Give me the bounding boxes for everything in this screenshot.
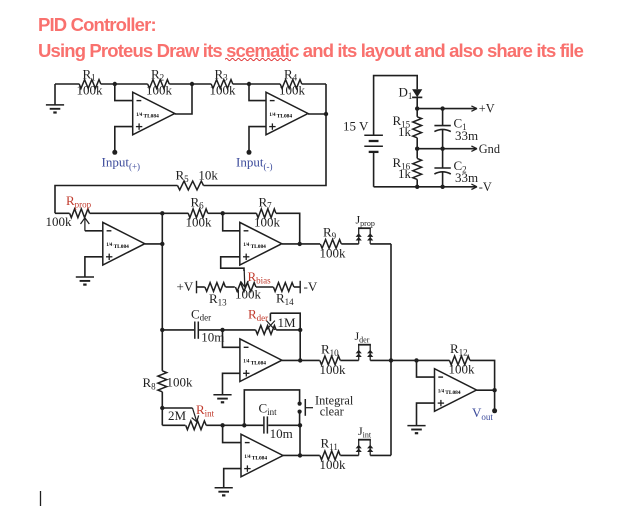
wire — [85, 257, 103, 277]
node Rprop-R6 — [160, 211, 164, 215]
wire — [340, 359, 358, 361]
svg-text:clear: clear — [320, 405, 344, 419]
jumper Jder — [355, 329, 374, 360]
wire — [85, 230, 103, 232]
svg-text:100k: 100k — [46, 214, 73, 229]
wire — [161, 408, 163, 425]
svg-text:100k: 100k — [279, 83, 306, 98]
op-amp U1B — [266, 92, 308, 135]
wire — [340, 454, 358, 456]
svg-text:100k: 100k — [320, 246, 347, 261]
svg-text:100k: 100k — [77, 83, 104, 98]
node -V rail — [415, 185, 419, 189]
wire — [341, 243, 358, 245]
wire — [223, 373, 240, 394]
wire — [417, 108, 476, 110]
resistor R11 — [320, 436, 347, 473]
svg-text:R9: R9 — [323, 225, 337, 241]
wire — [282, 243, 300, 245]
resistor R8 — [143, 330, 194, 408]
svg-text:2M: 2M — [168, 408, 187, 423]
spellcheck squiggle — [225, 57, 291, 62]
wire — [223, 213, 240, 231]
node Vout terminal — [492, 408, 497, 413]
svg-text:1M: 1M — [278, 315, 297, 330]
label Input(-) — [236, 155, 272, 172]
node A — [113, 82, 117, 86]
svg-text:R4: R4 — [284, 66, 298, 82]
svg-text:33m: 33m — [455, 170, 478, 185]
node Rder right — [298, 328, 302, 332]
wire — [300, 243, 320, 245]
wire — [226, 286, 235, 288]
wire — [299, 425, 301, 455]
ground (U2A +) — [213, 395, 231, 403]
wire — [55, 186, 178, 214]
wire — [308, 84, 326, 114]
wire — [374, 76, 418, 136]
wire — [417, 148, 476, 150]
wire — [494, 390, 496, 411]
svg-text:10m: 10m — [270, 426, 293, 441]
svg-text:1/4 TL084: 1/4 TL084 — [136, 113, 159, 120]
wire — [175, 84, 192, 114]
wire — [199, 329, 223, 331]
svg-text:Jint: Jint — [358, 424, 372, 439]
wire — [223, 330, 240, 347]
wire — [223, 329, 256, 331]
node C1 bottom — [440, 147, 444, 151]
wire — [223, 424, 264, 426]
op-amp U1D — [240, 222, 282, 265]
svg-text:10m: 10m — [201, 330, 224, 345]
capacitor C1 — [434, 109, 478, 149]
svg-text:R3: R3 — [215, 66, 229, 82]
potentiometer Rint — [162, 402, 214, 430]
op-amp U1C — [103, 222, 145, 265]
resistor R15 — [393, 109, 422, 149]
wire — [276, 329, 300, 331]
wire — [145, 243, 163, 245]
node Rint-Cint — [220, 423, 224, 427]
potentiometer Rder — [248, 307, 296, 335]
svg-text:R7: R7 — [259, 194, 273, 210]
svg-text:1/4 TL084: 1/4 TL084 — [244, 455, 267, 462]
wire — [282, 359, 300, 361]
capacitor C2 — [434, 149, 478, 187]
label -V — [471, 180, 491, 194]
wire — [302, 83, 326, 85]
diode D1 — [399, 85, 423, 101]
svg-text:1/4 TL084: 1/4 TL084 — [243, 360, 266, 367]
battery BT1 15V — [343, 118, 383, 152]
wire — [224, 469, 241, 488]
wire — [233, 83, 249, 85]
resistor R6 — [186, 194, 213, 229]
wire — [55, 83, 79, 85]
wire — [249, 84, 266, 101]
wire — [276, 213, 300, 244]
label +V (bias) — [177, 279, 197, 294]
label Gnd — [471, 142, 500, 156]
svg-text:R1: R1 — [83, 66, 96, 82]
svg-text:Input(-): Input(-) — [236, 155, 272, 172]
svg-text:R14: R14 — [276, 291, 294, 307]
wire — [169, 83, 192, 85]
svg-text:1/4 TL084: 1/4 TL084 — [106, 243, 129, 250]
ground (U2C +) — [407, 426, 425, 434]
svg-text:R8: R8 — [143, 375, 157, 391]
wire — [294, 286, 300, 288]
svg-text:R5 10k: R5 10k — [176, 168, 219, 184]
wire — [244, 390, 299, 425]
svg-text:D1: D1 — [399, 85, 413, 101]
node Cder-Rder — [220, 328, 224, 332]
node U2A output — [298, 358, 302, 362]
svg-text:R12: R12 — [450, 341, 468, 357]
wire (summing bus) — [390, 244, 392, 456]
svg-text:-V: -V — [304, 279, 318, 294]
svg-text:Rprop: Rprop — [66, 193, 92, 209]
label Input(+) — [102, 155, 141, 172]
wire — [470, 360, 495, 390]
node U1D output — [298, 242, 302, 246]
svg-text:1k: 1k — [398, 124, 412, 139]
node C — [247, 82, 251, 86]
svg-text:R13: R13 — [209, 291, 227, 307]
wire — [115, 84, 133, 101]
wire — [197, 286, 205, 288]
wire — [270, 313, 300, 330]
node B — [190, 82, 194, 86]
svg-text:Rder: Rder — [248, 307, 268, 323]
ground (input reference) — [46, 84, 64, 113]
node U2B output — [298, 453, 302, 457]
wire — [223, 212, 257, 214]
node U2C output — [492, 388, 496, 392]
svg-text:Vout: Vout — [472, 405, 493, 422]
resistor R5 — [176, 168, 219, 190]
jumper Jprop — [356, 213, 375, 244]
wire — [256, 286, 273, 288]
wire — [300, 454, 320, 456]
resistor R16 — [393, 149, 422, 187]
wire — [299, 412, 301, 426]
svg-text:Cint: Cint — [259, 401, 278, 417]
capacitor Cder — [191, 306, 224, 344]
svg-text:Jder: Jder — [355, 329, 370, 344]
resistor R12 — [449, 341, 476, 377]
svg-text:100k: 100k — [254, 215, 281, 230]
svg-text:1/4 TL084: 1/4 TL084 — [269, 113, 292, 120]
wire — [221, 257, 244, 271]
node Cder input — [160, 328, 164, 332]
wire — [370, 243, 391, 245]
resistor R13 — [205, 283, 227, 308]
wire — [417, 403, 435, 425]
wire — [249, 127, 266, 153]
wire — [162, 329, 194, 331]
svg-text:+V: +V — [479, 102, 495, 116]
node summing tap — [414, 358, 418, 362]
wire — [206, 424, 222, 426]
resistor R3 — [210, 66, 237, 97]
svg-text:-V: -V — [479, 180, 492, 194]
resistor R10 — [320, 342, 347, 378]
cursor bar — [40, 491, 42, 506]
svg-text:R10: R10 — [321, 342, 339, 358]
resistor R7 — [254, 194, 281, 229]
wire — [417, 360, 435, 377]
wire — [90, 212, 189, 214]
node bus-Jder — [389, 358, 393, 362]
wire — [477, 389, 495, 391]
wire — [370, 454, 391, 456]
svg-text:+V: +V — [177, 279, 194, 294]
svg-text:15 V: 15 V — [343, 118, 369, 133]
resistor R9 — [320, 225, 347, 261]
node U1C output — [160, 242, 164, 246]
svg-text:100k: 100k — [146, 83, 173, 98]
label Vout — [472, 405, 493, 422]
wire — [115, 127, 133, 153]
node Gnd rail — [415, 147, 419, 151]
label +V — [471, 102, 494, 116]
svg-text:R2: R2 — [151, 66, 164, 82]
svg-text:100k: 100k — [186, 215, 213, 230]
svg-text:1k: 1k — [398, 166, 412, 181]
wire — [249, 83, 280, 85]
wire — [283, 454, 300, 456]
wire — [417, 359, 450, 361]
capacitor Cint — [259, 401, 293, 441]
resistor R1 — [77, 66, 104, 97]
jumper Jint — [356, 424, 374, 455]
wire — [373, 152, 375, 187]
node R8 bottom — [160, 406, 164, 410]
ground (U1C +) — [76, 277, 94, 285]
wire — [204, 114, 327, 186]
wire — [370, 359, 416, 361]
wire — [101, 83, 148, 85]
wire — [268, 424, 300, 426]
node Input(-) terminal — [247, 150, 252, 155]
ground (U2B +) — [215, 488, 233, 496]
node +V rail — [415, 106, 419, 110]
svg-text:R11: R11 — [321, 436, 338, 452]
node op-amp U1B output — [324, 112, 328, 116]
svg-text:1/4 TL084: 1/4 TL084 — [243, 243, 266, 250]
op-amp U2A — [240, 339, 282, 382]
node C2 bottom — [440, 185, 444, 189]
node clear-switch left — [242, 423, 246, 427]
svg-text:Input(+): Input(+) — [102, 155, 141, 172]
svg-text:100k: 100k — [210, 83, 237, 98]
potentiometer Rbias — [235, 269, 271, 301]
svg-text:33m: 33m — [455, 128, 478, 143]
potentiometer Rprop — [46, 193, 92, 231]
node C1 top — [440, 106, 444, 110]
wire — [161, 213, 163, 330]
wire — [223, 425, 241, 442]
wire — [55, 212, 70, 214]
wire — [416, 97, 418, 108]
wire — [208, 212, 223, 214]
switch Integral clear — [298, 394, 354, 419]
svg-text:1/4 TL084: 1/4 TL084 — [438, 389, 461, 396]
node R6-R7 — [221, 211, 225, 215]
wire — [192, 83, 211, 85]
svg-text:100k: 100k — [320, 457, 347, 472]
node Cint right — [298, 423, 302, 427]
op-amp U1A — [133, 92, 175, 135]
label -V (bias) — [300, 279, 318, 294]
wire — [299, 330, 301, 361]
svg-text:Rbias: Rbias — [248, 269, 272, 285]
svg-text:100k: 100k — [449, 362, 476, 377]
node Input(+) terminal — [112, 150, 117, 155]
resistor R4 — [279, 66, 306, 97]
resistor R2 — [146, 66, 173, 97]
op-amp U2B — [241, 434, 283, 477]
svg-text:Cder: Cder — [191, 306, 211, 322]
svg-text:Gnd: Gnd — [479, 142, 500, 156]
svg-text:100k: 100k — [235, 286, 262, 301]
resistor R14 — [273, 283, 294, 307]
wire — [374, 186, 477, 188]
wire — [300, 359, 320, 361]
title line 2 — [38, 40, 583, 62]
svg-text:Jprop: Jprop — [356, 213, 375, 228]
svg-text:Rint: Rint — [196, 402, 215, 418]
svg-text:100k: 100k — [167, 375, 194, 390]
op-amp U2C — [435, 369, 477, 412]
svg-text:R6: R6 — [191, 194, 205, 210]
svg-text:100k: 100k — [320, 362, 347, 377]
title line 1 — [38, 14, 156, 36]
